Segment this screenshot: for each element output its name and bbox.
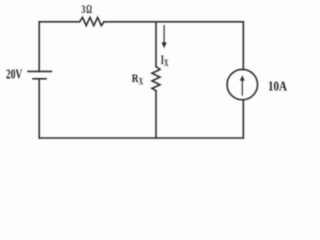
resistor RX zigzag xyxy=(152,67,160,91)
svg-text:20V: 20V xyxy=(6,66,22,81)
wire top-left horizontal segment xyxy=(39,21,79,23)
current source arrow shaft xyxy=(241,79,243,96)
wire bottom rail xyxy=(39,137,243,139)
current arrow IX shaft xyxy=(163,25,165,45)
voltage source 20V short plate xyxy=(33,78,46,80)
current arrow IX head xyxy=(162,42,167,48)
svg-text:Ω: Ω xyxy=(86,2,92,16)
wire left upper (top rail to battery) xyxy=(38,22,40,72)
voltage source 20V long plate xyxy=(28,70,51,72)
svg-text:3: 3 xyxy=(81,2,85,16)
wire right lower (current source to bottom rail) xyxy=(242,100,244,138)
wire middle branch upper xyxy=(155,22,157,67)
wire left lower (battery to bottom rail) xyxy=(38,79,40,138)
wire top-right segment xyxy=(156,21,243,23)
current source arrow head xyxy=(240,75,245,81)
resistor 3Ω zigzag xyxy=(80,17,104,25)
current source circle xyxy=(227,69,257,99)
svg-text:R: R xyxy=(132,71,139,85)
svg-text:10A: 10A xyxy=(268,78,287,93)
wire right upper (top rail to current source) xyxy=(242,22,244,70)
wire middle branch lower xyxy=(155,91,157,138)
wire top-middle segment xyxy=(104,21,156,23)
svg-text:X: X xyxy=(139,76,144,86)
svg-text:X: X xyxy=(164,58,169,68)
